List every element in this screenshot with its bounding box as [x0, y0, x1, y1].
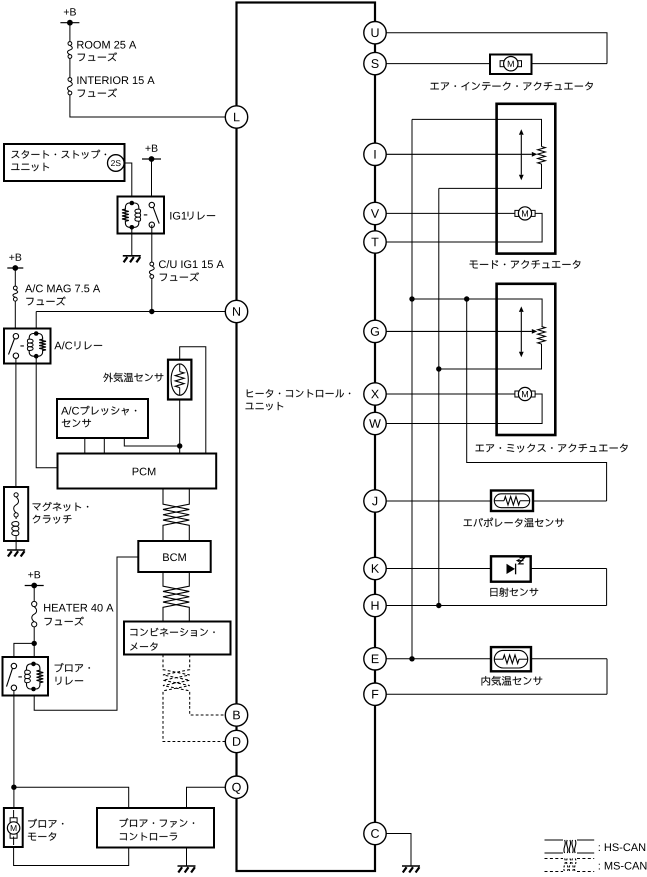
wire pressure sensor to junction: [124, 438, 179, 446]
ground (pin C): [402, 865, 420, 867]
air mix actuator motor: [515, 391, 519, 397]
wire actuator to U loop: [532, 63, 608, 65]
pin D: [225, 730, 247, 752]
pin U: [364, 22, 386, 44]
outside air temp sensor 外気温センサ: [168, 360, 191, 400]
mode travel arrow: [520, 135, 522, 155]
evaporator temp sensor エバポレータ温センサ: [491, 491, 533, 512]
wire pin H: [386, 605, 606, 607]
solar sensor loop to pin H wire: [606, 569, 608, 606]
wire fuse ROOM to fuse INTERIOR: [69, 58, 71, 77]
wire pin G to mix wiper: [386, 330, 532, 332]
mode actuator box モード・アクチュエータ: [497, 104, 556, 254]
pin F: [364, 683, 386, 705]
wire +B to fuse HEATER: [33, 586, 35, 602]
pin S: [364, 52, 386, 74]
junction (E to 5V bus): [409, 656, 414, 661]
fuse HEATER 40 A: [32, 601, 37, 606]
wire pin V to mode motor: [386, 212, 515, 214]
wire controller to ground: [186, 848, 188, 866]
pin Q: [225, 776, 247, 798]
wire A/C relay switch to magnet clutch: [15, 358, 17, 487]
wire blower motor top: [13, 787, 15, 808]
pin K: [364, 557, 386, 579]
wire fuse HEATER to junction: [33, 627, 35, 644]
motor feed wire to controller: [14, 787, 129, 808]
blower relay box ブロア・リレー: [3, 657, 49, 696]
wire +B to fuse ROOM: [69, 23, 71, 42]
fuse A/C MAG 7.5 A: [13, 286, 17, 290]
wire mode motor to pin T: [386, 213, 542, 242]
blower fan controller box ブロア・ファン・コントローラ: [97, 808, 214, 848]
pin X: [364, 383, 386, 405]
wire pin E to inside air temp sensor: [386, 658, 607, 660]
air mix supply wire: [412, 299, 542, 327]
pin L: [225, 106, 247, 128]
wire pin Q to controller: [187, 787, 226, 808]
dashed wire to pin B: [190, 706, 226, 715]
wire sensor top to PCM: [180, 347, 206, 454]
PCM box: [58, 454, 217, 489]
BCM box: [138, 541, 210, 572]
solar sensor 日射センサ (photodiode): [491, 556, 531, 581]
IG1 relay box IG1リレー: [118, 197, 165, 234]
fuse C/U IG1 15 A: [150, 262, 154, 266]
pin I: [364, 143, 386, 165]
wire fuse to A/C relay switch: [14, 301, 16, 336]
ground (IG1 relay): [123, 255, 141, 257]
IG1 relay coil: [125, 203, 138, 227]
power feed +B (IG1 relay): [145, 146, 150, 151]
legend MS-CAN twisted pair (dashed): [545, 858, 564, 860]
wire A/C relay coil to PCM: [36, 356, 57, 468]
wire pin U loop: [386, 33, 607, 64]
pin J: [364, 490, 386, 512]
wire pin C to ground: [386, 834, 411, 866]
blower motor box ブロア・モータ: [4, 808, 23, 847]
wire pin J to evap sensor: [386, 500, 606, 502]
HS-CAN twisted pair BCM to combination meter: [163, 572, 189, 622]
wire pin K to solar sensor: [386, 568, 606, 570]
wire +B to IG1 relay switch: [151, 159, 153, 205]
air mix actuator box エア・ミックス・アクチュエータ: [497, 284, 556, 435]
wire fuses to pin L: [70, 95, 225, 117]
wire blower motor to controller bottom: [14, 847, 129, 866]
mode actuator supply wire: [412, 119, 542, 146]
pin C: [364, 822, 386, 844]
power feed +B (HEATER): [28, 572, 33, 577]
fuse ROOM 25 A: [68, 42, 72, 46]
power feed +B (top left): [64, 9, 69, 14]
junction (blower feed): [32, 641, 37, 646]
wire pin I to mode wiper: [386, 153, 532, 155]
wire sensor bottom to junction: [179, 400, 181, 447]
A/C pressure sensor box A/Cプレッシャ・センサ: [57, 399, 148, 438]
wire pin S to air intake actuator: [386, 63, 490, 65]
pin N: [225, 300, 247, 322]
air mix position sensor resistor: [538, 327, 546, 345]
legend HS-CAN twisted pair: [545, 839, 564, 841]
pin V: [364, 202, 386, 224]
bus wire (sensor ground vertical): [438, 188, 440, 605]
wire IG1 coil to ground: [131, 227, 133, 255]
wire mix motor to pin W: [386, 394, 542, 424]
pin T: [364, 231, 386, 253]
mode position sensor resistor: [538, 147, 546, 165]
ground (blower fan controller): [178, 865, 196, 867]
wire pin X to mix motor: [386, 393, 515, 395]
junction (N wire): [149, 309, 154, 314]
junction (bus to mode/mix supply): [409, 296, 414, 301]
blower relay switch: [11, 663, 16, 668]
dashed wire to pin D: [163, 706, 225, 742]
inside air temp sensor 内気温センサ: [491, 647, 531, 671]
ground (magnet clutch): [7, 549, 25, 551]
power feed +B (A/C MAG): [9, 255, 14, 260]
wire fuse C/U IG1 to junction: [151, 278, 153, 311]
fuse INTERIOR 15 A: [68, 78, 72, 82]
pin H: [364, 594, 386, 616]
wire blower relay coil to BCM: [34, 557, 138, 710]
wire to pin N: [36, 311, 225, 313]
heater control unit box ヒータ・コントロール・ユニット: [237, 3, 376, 872]
wire +B to fuse A/C MAG: [14, 268, 16, 286]
HS-CAN twisted pair PCM to BCM: [163, 489, 189, 542]
air intake actuator box エア・インテーク・アクチュエータ: [490, 55, 532, 75]
pin G: [364, 320, 386, 342]
evap sensor supply wire: [467, 299, 607, 501]
air mix resistor return wire: [439, 344, 542, 369]
junction (sensor/PCM): [177, 443, 182, 448]
sensor loop to pin F wire: [606, 659, 608, 694]
combination meter box コンビネーション・メータ: [124, 622, 231, 655]
pin B: [225, 704, 247, 726]
junction (mix supply to evap sensor bus): [464, 296, 469, 301]
wire IG1 switch to fuse C/U IG1: [151, 225, 153, 262]
pin W: [364, 412, 386, 434]
wire junction down to A/C relay coil: [35, 312, 37, 334]
A/C relay coil: [29, 334, 42, 357]
IG1 relay switch: [149, 202, 154, 207]
junction (H to return bus): [436, 603, 441, 608]
pin E: [364, 648, 386, 670]
start-stop unit box スタート・ストップ・ユニット: [4, 144, 125, 181]
wire blower relay switch to motor feed: [13, 691, 15, 788]
junction (return bus): [436, 366, 441, 371]
air mix travel arrow: [520, 312, 522, 332]
wire pin F: [386, 693, 607, 695]
wires pressure sensor to PCM: [84, 438, 86, 454]
junction (blower motor feed): [11, 785, 16, 790]
A/C relay box A/Cリレー: [4, 329, 51, 364]
wire 2S to IG1 relay coil: [123, 163, 132, 203]
mode resistor return wire: [439, 164, 542, 188]
connector 2S: [108, 155, 125, 172]
bus wire (5V supply vertical): [411, 119, 413, 658]
wire magnet clutch to ground: [15, 536, 17, 541]
A/C relay switch: [13, 334, 18, 339]
MS-CAN dashed twisted pair meter to pins B/D: [163, 655, 190, 707]
magnet clutch マグネット・クラッチ: [4, 487, 28, 541]
wire junction to blower relay: [33, 643, 35, 664]
mode actuator motor: [515, 210, 519, 216]
blower relay coil: [27, 664, 40, 689]
